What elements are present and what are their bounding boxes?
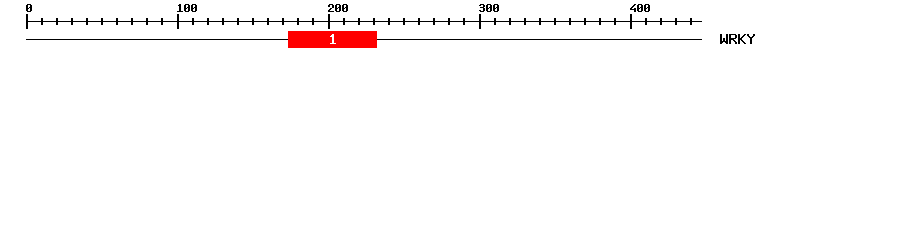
minor tick 180	[297, 18, 299, 25]
major tick 400	[630, 14, 632, 29]
major tick 100	[177, 14, 179, 29]
minor tick 250	[403, 18, 405, 25]
major tick 0	[26, 14, 28, 29]
minor tick 30	[71, 18, 73, 25]
minor tick 280	[448, 18, 450, 25]
minor tick 380	[599, 18, 601, 25]
minor tick 370	[584, 18, 586, 25]
minor tick 170	[282, 18, 284, 25]
minor tick 90	[161, 18, 163, 25]
minor tick 340	[539, 18, 541, 25]
minor tick 260	[418, 18, 420, 25]
family label WRKY	[720, 34, 755, 44]
minor tick 110	[192, 18, 194, 25]
ruler label 300	[479, 4, 499, 12]
minor tick 150	[252, 18, 254, 25]
ruler label 0	[26, 4, 32, 12]
minor tick 190	[312, 18, 314, 25]
minor tick 290	[463, 18, 465, 25]
ruler label 400	[630, 4, 650, 12]
minor tick 20	[56, 18, 58, 25]
minor tick 160	[267, 18, 269, 25]
minor tick 220	[358, 18, 360, 25]
minor tick 430	[675, 18, 677, 25]
minor tick 10	[41, 18, 43, 25]
minor tick 390	[614, 18, 616, 25]
minor tick 230	[373, 18, 375, 25]
ruler scale line	[26, 21, 702, 22]
minor tick 130	[222, 18, 224, 25]
minor tick 270	[433, 18, 435, 25]
minor tick 440	[690, 18, 692, 25]
minor tick 330	[524, 18, 526, 25]
minor tick 210	[343, 18, 345, 25]
minor tick 320	[509, 18, 511, 25]
ruler label 100	[177, 4, 197, 12]
minor tick 40	[86, 18, 88, 25]
major tick 200	[328, 14, 330, 29]
WRKY domain box 1	[288, 31, 377, 48]
minor tick 420	[660, 18, 662, 25]
minor tick 410	[645, 18, 647, 25]
minor tick 350	[554, 18, 556, 25]
major tick 300	[479, 14, 481, 29]
protein backbone line	[26, 39, 702, 40]
minor tick 120	[207, 18, 209, 25]
minor tick 50	[101, 18, 103, 25]
minor tick 360	[569, 18, 571, 25]
minor tick 240	[388, 18, 390, 25]
minor tick 310	[494, 18, 496, 25]
domain number 1	[330, 34, 336, 44]
minor tick 80	[146, 18, 148, 25]
minor tick 70	[131, 18, 133, 25]
minor tick 140	[237, 18, 239, 25]
minor tick 60	[116, 18, 118, 25]
ruler label 200	[328, 4, 348, 12]
